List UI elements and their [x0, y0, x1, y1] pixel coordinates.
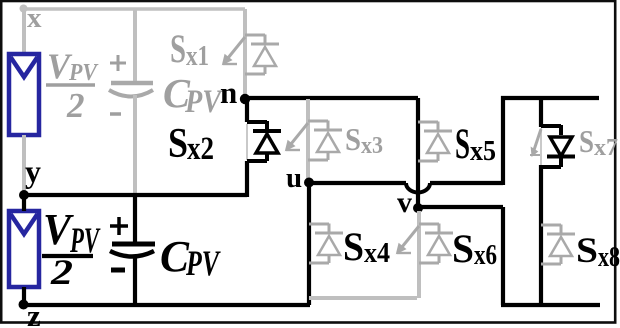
label Sx6 — [452, 226, 497, 271]
switch Sx1 diode (grey) — [245, 35, 279, 75]
label Cpv upper (grey) — [163, 70, 224, 120]
svg-text:PV: PV — [184, 84, 223, 120]
label Cpv lower — [160, 232, 221, 283]
svg-text:PV: PV — [68, 60, 99, 86]
svg-text:S: S — [455, 121, 470, 168]
svg-text:x: x — [27, 2, 42, 34]
wire PV1 to y (grey) — [22, 135, 26, 193]
wire y to PV2 — [22, 195, 26, 211]
label Sx2 — [168, 121, 214, 167]
PV module upper Vpv/2 — [9, 54, 39, 135]
svg-text:u: u — [286, 162, 302, 194]
wire v riser down — [501, 207, 505, 305]
svg-text:S: S — [343, 224, 364, 269]
svg-text:n: n — [220, 75, 237, 110]
svg-text:x8: x8 — [598, 242, 620, 273]
minus sign upper (grey) — [110, 112, 121, 116]
wire y-wire to Cpv lower — [133, 195, 137, 242]
node n label — [220, 75, 237, 110]
wire v to Sx6 (grey) — [417, 211, 421, 298]
wire bottom right rail — [501, 303, 600, 307]
switch Sx5 diode (grey) — [418, 122, 452, 162]
wire Sx6 bottom return (grey) — [309, 296, 417, 300]
label Sx8 — [576, 230, 620, 273]
node u label — [286, 162, 302, 194]
svg-text:x4: x4 — [364, 237, 390, 269]
svg-text:x1: x1 — [186, 40, 209, 72]
node v label — [397, 186, 412, 219]
wire top rail to Sx7 — [539, 96, 543, 127]
switch Sx7 open gap (grey) — [540, 128, 542, 165]
switch Sx4 diode (grey) — [309, 224, 343, 264]
wire PV2 to z — [22, 287, 26, 305]
switch Sx6 blade (grey) — [397, 226, 420, 254]
node x label — [27, 2, 42, 34]
capacitor Cpv lower — [110, 244, 155, 257]
plus sign lower — [110, 217, 128, 235]
wire top rail to Cpv upper (grey) — [133, 9, 137, 81]
wire x to PV1 (grey) — [22, 9, 26, 54]
switch Sx7 conducting diode (black, downward) — [541, 125, 575, 167]
svg-text:v: v — [397, 186, 412, 219]
switch Sx1 blade (grey) — [223, 37, 246, 65]
wire top right rail — [501, 96, 599, 100]
wire u to z rail (Sx4 main) — [307, 183, 311, 305]
label Sx7 (grey) — [579, 123, 618, 161]
wire hop under-arc — [406, 183, 430, 193]
svg-text:S: S — [579, 123, 594, 159]
svg-text:S: S — [168, 121, 188, 167]
wire u riser up — [501, 96, 505, 185]
node x dot — [20, 5, 28, 13]
label Sx5 — [455, 121, 496, 168]
svg-text:S: S — [452, 226, 474, 271]
node z dot — [19, 300, 29, 310]
svg-text:x3: x3 — [361, 133, 383, 159]
svg-text:2: 2 — [50, 252, 73, 292]
wire Sx3 branch (grey) — [306, 99, 310, 181]
wire Sx2 to y rail — [245, 161, 249, 197]
svg-text:y: y — [25, 153, 41, 189]
svg-text:x5: x5 — [470, 136, 496, 167]
switch Sx8 diode (grey) — [541, 225, 575, 265]
label Vpv/2 lower — [42, 205, 101, 292]
svg-text:z: z — [27, 298, 41, 328]
label Vpv/2 upper (grey) — [46, 46, 99, 125]
wire y rail — [22, 193, 247, 197]
wire hop to right riser — [430, 181, 503, 185]
svg-text:S: S — [345, 121, 361, 157]
wire Sx7 to Sx8 — [539, 165, 543, 305]
plus sign upper (grey) — [110, 55, 126, 71]
svg-text:x7: x7 — [594, 135, 618, 161]
node y dot — [19, 190, 29, 200]
switch Sx6 diode (grey) — [419, 224, 453, 264]
wire n rail to v (Sx5 main) — [416, 98, 420, 207]
switch Sx2 diode — [247, 121, 281, 161]
wire n to Sx2 — [245, 97, 249, 122]
wire u to hop — [309, 181, 406, 185]
switch Sx2 open gap (grey) — [246, 124, 248, 160]
label Sx4 — [343, 224, 390, 269]
label Sx1 (grey) — [170, 26, 209, 72]
svg-text:x2: x2 — [187, 131, 214, 167]
wire z rail — [22, 303, 310, 307]
wire Cpv lower to z-wire — [133, 258, 137, 305]
wire v rail — [418, 205, 503, 209]
node v dot — [413, 203, 423, 213]
node y label — [25, 153, 41, 189]
switch Sx3 blade (grey) — [286, 123, 309, 151]
svg-text:S: S — [170, 26, 186, 71]
svg-text:S: S — [576, 230, 598, 270]
wire n rail — [245, 96, 418, 100]
capacitor Cpv upper (grey) — [109, 83, 153, 97]
node n dot — [240, 94, 250, 104]
node z label — [27, 298, 41, 328]
wire Sx1 branch (grey) — [243, 9, 247, 96]
svg-text:PV: PV — [185, 243, 221, 283]
switch Sx3 diode (grey) — [308, 121, 342, 161]
label Sx3 (grey) — [345, 121, 383, 159]
wire top rail from node x (grey) — [22, 7, 245, 11]
wire Cpv upper to y-wire (grey) — [133, 95, 137, 195]
svg-text:2: 2 — [66, 86, 85, 125]
PV module lower Vpv/2 — [9, 211, 39, 287]
svg-text:x6: x6 — [474, 240, 497, 271]
switch Sx7 blade (grey) — [530, 129, 541, 156]
minus sign lower — [111, 268, 125, 273]
node u dot — [304, 178, 314, 188]
